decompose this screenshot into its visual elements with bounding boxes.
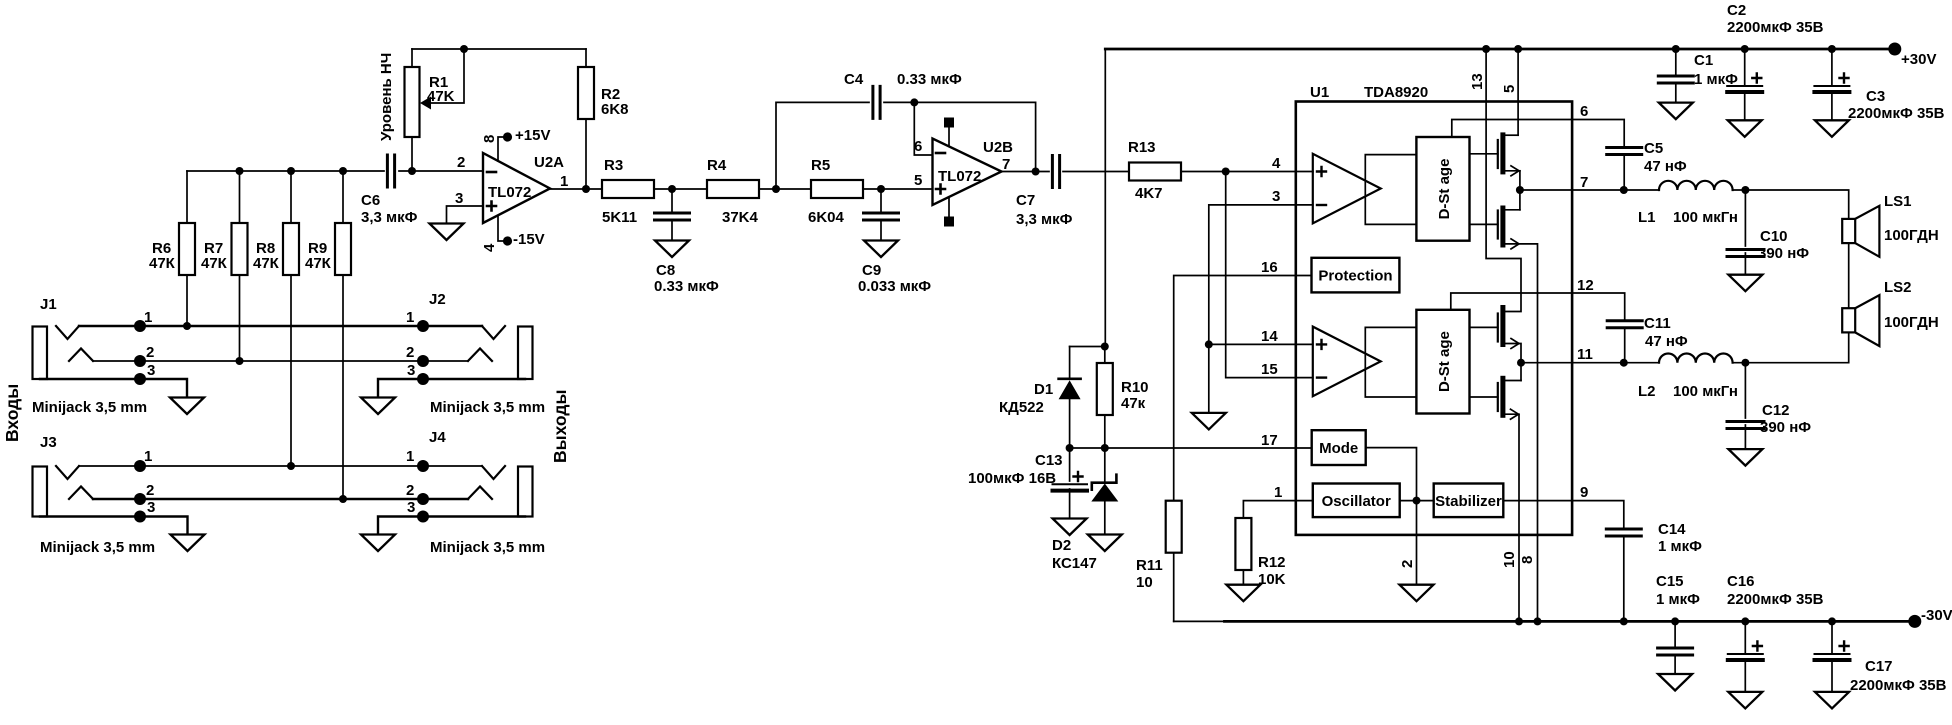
mosfet ch1 high channel <box>1500 132 1505 174</box>
svg-text:-15V: -15V <box>513 231 545 248</box>
wire U2A pin3 to ground <box>447 206 484 223</box>
svg-text:9: 9 <box>1580 484 1588 501</box>
diode D1 <box>1069 347 1071 380</box>
wire C4 to output node <box>884 102 1036 171</box>
mosfet ch2 low gate <box>1470 396 1498 398</box>
capacitor C10 <box>1744 190 1746 275</box>
wire pin6 branch <box>914 102 932 155</box>
svg-text:1: 1 <box>406 448 414 465</box>
svg-text:47K: 47K <box>427 88 455 105</box>
ground J4 <box>361 535 395 552</box>
ground pin3 pin14 <box>1192 413 1226 430</box>
wire U2A output <box>550 188 602 190</box>
mosfet ch2 high gate <box>1470 326 1498 328</box>
svg-text:C17: C17 <box>1865 658 1893 675</box>
svg-text:47К: 47К <box>149 255 176 272</box>
svg-text:Входы: Входы <box>2 384 22 442</box>
svg-text:1: 1 <box>406 309 414 326</box>
ground J1 <box>170 398 204 415</box>
ground C15 <box>1658 674 1692 691</box>
svg-text:1: 1 <box>560 173 568 190</box>
wire input bus <box>187 170 384 172</box>
svg-text:Oscillator: Oscillator <box>1322 493 1391 510</box>
mosfet ch1 low gate <box>1470 223 1498 225</box>
capacitor C11 <box>1607 321 1642 328</box>
svg-text:LS2: LS2 <box>1884 279 1912 296</box>
capacitor C15 <box>1674 621 1676 673</box>
ground C12 <box>1728 449 1762 466</box>
wire J4 pin3 to ground <box>378 517 525 535</box>
svg-text:C2: C2 <box>1727 2 1746 19</box>
svg-text:D-St age: D-St age <box>1436 159 1453 220</box>
svg-text:Уровень НЧ: Уровень НЧ <box>378 53 395 141</box>
node bus R9 <box>339 167 347 175</box>
bracket channel2 <box>1365 327 1416 397</box>
svg-text:Protection: Protection <box>1318 268 1392 285</box>
svg-text:6K8: 6K8 <box>601 101 629 118</box>
resistor R9 <box>342 171 344 500</box>
wire L1 to LS1 <box>1732 190 1848 219</box>
wire -30V rail <box>1174 620 1225 622</box>
svg-text:11: 11 <box>1577 346 1593 363</box>
svg-text:2200мкФ 35В: 2200мкФ 35В <box>1848 105 1945 122</box>
wire R13 to pin4 <box>1181 171 1313 173</box>
resistor R5 <box>811 180 863 198</box>
wire pin16 to R11 <box>1174 276 1312 501</box>
mosfet ch2 high source <box>1505 344 1521 381</box>
svg-text:5: 5 <box>914 172 922 189</box>
wire pin1 to R12 <box>1243 501 1312 518</box>
wire J1-J2 pin1 row <box>79 325 482 327</box>
op-amp U2A <box>483 153 550 223</box>
mosfet ch1 low channel <box>1500 206 1505 248</box>
svg-text:Stabilizer: Stabilizer <box>1435 493 1502 510</box>
ground R12 <box>1226 585 1260 602</box>
wire Oscillator to Stabilizer <box>1400 500 1434 502</box>
svg-text:J4: J4 <box>429 429 446 446</box>
svg-text:R4: R4 <box>707 157 727 174</box>
wire pin7 output <box>1520 189 1659 191</box>
svg-text:C1: C1 <box>1694 52 1713 69</box>
svg-text:2: 2 <box>406 482 414 499</box>
svg-text:16: 16 <box>1261 259 1278 276</box>
svg-text:J1: J1 <box>40 296 57 313</box>
svg-text:U2A: U2A <box>534 154 564 171</box>
svg-text:10: 10 <box>1136 574 1153 591</box>
wire Mode to ground <box>1366 448 1417 585</box>
svg-text:0.033 мкФ: 0.033 мкФ <box>858 278 931 295</box>
svg-text:1: 1 <box>144 448 152 465</box>
node top wiper junction <box>460 45 468 53</box>
svg-text:100мкФ 16В: 100мкФ 16В <box>968 470 1056 487</box>
wire C14 to rail <box>1623 536 1625 621</box>
mosfet ch1 low source to pin8 <box>1505 244 1537 622</box>
svg-text:C14: C14 <box>1658 521 1686 538</box>
svg-text:TDA8920: TDA8920 <box>1364 84 1428 101</box>
svg-text:R11: R11 <box>1136 557 1163 574</box>
wire D1 R10 top row <box>1070 346 1106 348</box>
svg-text:100ГДН: 100ГДН <box>1884 314 1939 331</box>
svg-text:C3: C3 <box>1866 88 1885 105</box>
svg-text:3,3 мкФ: 3,3 мкФ <box>1016 211 1073 228</box>
svg-text:15: 15 <box>1261 361 1278 378</box>
node bus R8 <box>287 167 295 175</box>
svg-text:2: 2 <box>1399 560 1416 568</box>
svg-text:10: 10 <box>1501 551 1518 568</box>
mosfet ch1 high gate <box>1470 153 1498 155</box>
capacitor C4 <box>873 86 880 118</box>
wire pin3 vertical <box>1209 205 1313 413</box>
wire +30V rail <box>1105 48 1895 51</box>
wire wiper tap <box>428 49 464 103</box>
svg-text:12: 12 <box>1577 277 1594 294</box>
wire J3-J4 pin2 row <box>93 498 468 500</box>
svg-text:14: 14 <box>1261 328 1278 345</box>
svg-text:4: 4 <box>1272 155 1281 172</box>
svg-text:17: 17 <box>1261 432 1278 449</box>
mosfet ch2 low source to pin10 <box>1505 414 1519 621</box>
wire pin9 to C14 <box>1503 501 1624 527</box>
mosfet ch1 high source <box>1505 170 1520 172</box>
svg-text:C10: C10 <box>1760 228 1788 245</box>
svg-text:Mode: Mode <box>1319 440 1358 457</box>
resistor R11 <box>1166 501 1182 553</box>
svg-text:47 нФ: 47 нФ <box>1645 333 1688 350</box>
Stabilizer box <box>1434 484 1504 518</box>
svg-text:47к: 47к <box>1121 395 1146 412</box>
svg-text:1 мкФ: 1 мкФ <box>1658 538 1702 555</box>
svg-text:47К: 47К <box>201 255 228 272</box>
mosfet ch1 high drain <box>1505 134 1518 136</box>
node bus R7 <box>236 167 244 175</box>
supply +15V U2A pin8 <box>498 137 505 161</box>
svg-text:C15: C15 <box>1656 573 1684 590</box>
svg-text:1 мкФ: 1 мкФ <box>1656 591 1700 608</box>
svg-text:100 мкГн: 100 мкГн <box>1673 383 1738 400</box>
capacitor C3 <box>1831 49 1833 120</box>
svg-text:7: 7 <box>1580 174 1588 191</box>
wire top feedback R1-R2 <box>412 48 586 50</box>
ground C10 <box>1728 275 1762 292</box>
capacitor C1 <box>1675 49 1677 102</box>
wire C11 to pin11 node <box>1624 328 1626 363</box>
ground C8 <box>655 241 689 258</box>
wire pin6 bootstrap <box>1452 120 1624 147</box>
svg-text:47 нФ: 47 нФ <box>1644 158 1687 175</box>
wire C7 to R13 <box>1063 171 1129 173</box>
svg-text:R12: R12 <box>1258 554 1286 571</box>
svg-text:8: 8 <box>1519 556 1536 564</box>
svg-text:R3: R3 <box>604 157 623 174</box>
svg-text:C5: C5 <box>1644 140 1663 157</box>
svg-text:C4: C4 <box>844 71 864 88</box>
svg-text:R10: R10 <box>1121 379 1149 396</box>
wire U2B output <box>1002 171 1050 173</box>
capacitor C6 <box>387 155 394 187</box>
wire ch1 output node <box>1519 171 1521 210</box>
wire C5 to pin7 node <box>1623 155 1625 191</box>
resistor R2 <box>585 49 587 189</box>
resistor R13 <box>1129 163 1181 181</box>
ground C2 <box>1728 120 1762 137</box>
svg-text:47К: 47К <box>253 255 280 272</box>
capacitor C2 <box>1744 49 1746 120</box>
wire J3 pin3 to ground <box>40 517 188 535</box>
terminal -30V <box>1908 615 1921 628</box>
IC U1 TDA8920 outline <box>1296 102 1572 535</box>
mosfet ch1 low drain <box>1505 209 1520 211</box>
terminal +30V <box>1888 43 1901 56</box>
svg-text:37K4: 37K4 <box>722 209 759 226</box>
svg-text:J2: J2 <box>429 291 446 308</box>
resistor R3 <box>602 180 654 198</box>
svg-text:U2B: U2B <box>983 139 1013 156</box>
ground C3 <box>1815 120 1849 137</box>
wire LS2 to L2 <box>1732 332 1848 362</box>
svg-text:5K11: 5K11 <box>602 209 637 226</box>
mosfet ch2 low channel <box>1500 376 1505 418</box>
svg-text:3: 3 <box>455 190 463 207</box>
mosfet ch2 high channel <box>1500 305 1505 347</box>
svg-text:100ГДН: 100ГДН <box>1884 227 1939 244</box>
speaker LS1 <box>1842 219 1855 243</box>
wire J1-J2 pin2 row <box>93 360 468 362</box>
svg-text:J3: J3 <box>40 434 57 451</box>
svg-text:3: 3 <box>407 362 415 379</box>
Protection box <box>1312 258 1400 293</box>
resistor R8 <box>290 171 292 466</box>
svg-text:6: 6 <box>914 138 922 155</box>
svg-text:Выходы: Выходы <box>550 390 570 463</box>
ground C1 <box>1659 103 1693 120</box>
supply -15V U2A pin4 <box>498 216 505 242</box>
node C6-R1 junction <box>408 167 416 175</box>
wire pin15 vertical <box>1226 172 1313 378</box>
wire pin13 supply jog <box>1486 49 1521 312</box>
wire R5 to U2B pin5 <box>863 188 933 190</box>
svg-text:R13: R13 <box>1128 139 1156 156</box>
svg-text:7: 7 <box>1002 156 1010 173</box>
capacitor C9 <box>880 189 882 240</box>
svg-text:0.33 мкФ: 0.33 мкФ <box>654 278 719 295</box>
ground U2A pin3 <box>430 224 464 241</box>
svg-text:0.33 мкФ: 0.33 мкФ <box>897 71 962 88</box>
resistor R6 <box>186 171 188 326</box>
svg-text:4: 4 <box>481 243 498 252</box>
svg-text:Minijack 3,5 mm: Minijack 3,5 mm <box>40 539 155 556</box>
svg-text:3: 3 <box>1272 188 1280 205</box>
svg-text:2: 2 <box>146 344 154 361</box>
svg-text:10K: 10K <box>1258 571 1286 588</box>
D-Stage channel2 <box>1416 310 1469 414</box>
op-amp channel1 <box>1313 154 1381 224</box>
svg-text:C8: C8 <box>656 262 675 279</box>
svg-text:390 нФ: 390 нФ <box>1760 419 1811 436</box>
svg-text:LS1: LS1 <box>1884 193 1912 210</box>
svg-text:D2: D2 <box>1052 537 1071 554</box>
svg-text:C9: C9 <box>862 262 881 279</box>
svg-text:3,3 мкФ: 3,3 мкФ <box>361 209 418 226</box>
svg-text:2200мкФ 35В: 2200мкФ 35В <box>1727 591 1824 608</box>
inductor L1 <box>1659 181 1733 190</box>
wire J3-J4 pin1 row <box>79 465 482 467</box>
ground J2 <box>361 398 395 415</box>
svg-text:R5: R5 <box>811 157 830 174</box>
ground D2 <box>1088 535 1122 552</box>
svg-text:C11: C11 <box>1644 315 1671 332</box>
inductor L2 <box>1659 354 1733 363</box>
svg-text:8: 8 <box>481 135 498 143</box>
svg-text:6: 6 <box>1580 103 1588 120</box>
svg-text:2: 2 <box>146 482 154 499</box>
svg-text:2200мкФ 35В: 2200мкФ 35В <box>1727 19 1824 36</box>
svg-text:D1: D1 <box>1034 381 1053 398</box>
capacitor C12 <box>1744 363 1746 449</box>
supply square U2B top <box>948 128 950 146</box>
wire pin5 supply <box>1517 49 1519 135</box>
svg-text:6K04: 6K04 <box>808 209 845 226</box>
wire R4 to R5 <box>759 188 811 190</box>
svg-text:-30V: -30V <box>1921 607 1952 624</box>
svg-text:TL072: TL072 <box>938 168 981 185</box>
wire C6 to opamp pin2 <box>399 170 483 172</box>
svg-text:C12: C12 <box>1762 402 1790 419</box>
jack J1 <box>33 327 48 380</box>
wire feedback to C4 <box>776 102 869 189</box>
svg-text:C13: C13 <box>1035 452 1063 469</box>
capacitor C8 <box>671 189 673 240</box>
capacitor C16 <box>1744 621 1746 691</box>
svg-text:TL072: TL072 <box>488 184 531 201</box>
svg-text:+30V: +30V <box>1901 51 1936 68</box>
wire pin11 output <box>1521 362 1659 364</box>
svg-text:4K7: 4K7 <box>1135 185 1163 202</box>
wire pin12 bootstrap <box>1451 293 1625 319</box>
svg-text:100 мкГн: 100 мкГн <box>1673 209 1738 226</box>
svg-text:C6: C6 <box>361 192 380 209</box>
mosfet ch2 low drain <box>1505 380 1521 382</box>
svg-text:47К: 47К <box>305 255 332 272</box>
svg-text:КД522: КД522 <box>999 399 1044 416</box>
svg-text:2: 2 <box>406 344 414 361</box>
resistor R4 <box>707 180 759 198</box>
ground C17 <box>1815 692 1849 709</box>
supply square U2B bottom <box>948 197 950 217</box>
ground pin2 <box>1400 585 1434 602</box>
wire C13 node row to pin17 <box>1070 447 1312 449</box>
capacitor C5 <box>1607 148 1642 155</box>
svg-text:3: 3 <box>407 499 415 516</box>
svg-text:C7: C7 <box>1016 192 1035 209</box>
resistor R12 <box>1235 518 1251 570</box>
Mode box <box>1312 430 1366 465</box>
zener D2 <box>1104 448 1106 483</box>
svg-text:D-St age: D-St age <box>1436 331 1453 392</box>
svg-text:L2: L2 <box>1638 383 1656 400</box>
ground C16 <box>1728 692 1762 709</box>
wire J2 pin3 to ground <box>378 379 525 397</box>
capacitor C13 <box>1069 448 1071 518</box>
resistor R10 <box>1104 347 1106 449</box>
wire pin14 <box>1209 343 1313 345</box>
svg-text:5: 5 <box>1501 85 1518 93</box>
svg-text:Minijack 3,5 mm: Minijack 3,5 mm <box>32 399 147 416</box>
svg-text:3: 3 <box>147 362 155 379</box>
capacitor C14 <box>1606 529 1641 536</box>
jack J3 <box>33 467 48 517</box>
svg-text:C16: C16 <box>1727 573 1755 590</box>
wire J1 pin3 to ground <box>40 379 187 397</box>
svg-text:Minijack 3,5 mm: Minijack 3,5 mm <box>430 399 545 416</box>
jack J2 <box>518 327 533 380</box>
svg-text:U1: U1 <box>1310 84 1329 101</box>
jack J4 <box>518 467 533 517</box>
potentiometer R1 <box>411 49 413 171</box>
svg-text:+15V: +15V <box>515 127 550 144</box>
wire +30V rail drop to D1/R10 <box>1104 49 1106 347</box>
speaker LS2 <box>1842 308 1855 332</box>
svg-text:2: 2 <box>457 154 465 171</box>
svg-text:L1: L1 <box>1638 209 1656 226</box>
ground J3 <box>171 535 205 552</box>
svg-text:3: 3 <box>147 499 155 516</box>
Oscillator box <box>1313 484 1400 518</box>
op-amp channel2 <box>1313 327 1381 397</box>
svg-text:1: 1 <box>1274 484 1282 501</box>
svg-text:2200мкФ 35В: 2200мкФ 35В <box>1850 677 1947 694</box>
op-amp U2B <box>933 139 1002 206</box>
wire R3 to R4 <box>654 188 707 190</box>
ground C9 <box>864 241 898 258</box>
capacitor C7 <box>1052 156 1059 188</box>
capacitor C17 <box>1831 621 1833 691</box>
svg-text:КС147: КС147 <box>1052 555 1097 572</box>
bracket channel1 <box>1365 155 1416 225</box>
resistor R7 <box>239 171 241 361</box>
D-Stage channel1 <box>1416 137 1469 241</box>
svg-text:390 нФ: 390 нФ <box>1758 245 1809 262</box>
ground C13 <box>1053 519 1087 536</box>
svg-text:Minijack 3,5 mm: Minijack 3,5 mm <box>430 539 545 556</box>
svg-text:13: 13 <box>1469 73 1486 90</box>
wire LS1 to LS2 <box>1848 243 1850 308</box>
